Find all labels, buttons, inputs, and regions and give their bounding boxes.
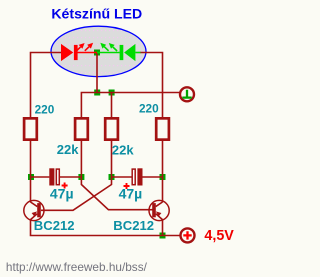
svg-text:http://www.freeweb.hu/bss/: http://www.freeweb.hu/bss/: [6, 260, 148, 274]
svg-text:BC212: BC212: [34, 218, 75, 233]
svg-text:47µ: 47µ: [50, 186, 74, 202]
svg-text:22k: 22k: [57, 142, 79, 157]
svg-text:47µ: 47µ: [119, 186, 143, 202]
svg-text:4,5V: 4,5V: [204, 228, 234, 244]
svg-text:220: 220: [139, 102, 159, 116]
svg-text:Kétszínű LED: Kétszínű LED: [51, 5, 142, 21]
svg-text:BC212: BC212: [113, 218, 154, 233]
svg-text:22k: 22k: [112, 142, 134, 157]
svg-text:220: 220: [35, 102, 55, 116]
